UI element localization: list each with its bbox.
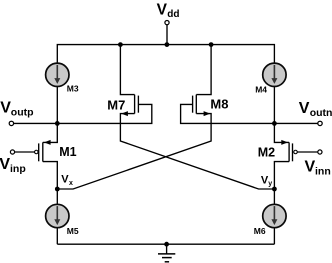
svg-text:M1: M1 <box>59 145 76 159</box>
svg-text:M4: M4 <box>255 84 267 94</box>
svg-text:x: x <box>69 180 73 187</box>
svg-text:M2: M2 <box>258 146 275 160</box>
svg-text:V: V <box>0 156 10 173</box>
svg-text:dd: dd <box>167 9 179 20</box>
svg-text:M5: M5 <box>67 226 79 236</box>
svg-text:V: V <box>0 99 11 116</box>
svg-text:M7: M7 <box>107 97 125 112</box>
svg-text:outn: outn <box>310 107 332 119</box>
svg-text:V: V <box>299 100 310 117</box>
svg-text:y: y <box>268 181 272 188</box>
svg-text:V: V <box>61 173 69 185</box>
svg-text:M6: M6 <box>254 226 266 236</box>
svg-text:outp: outp <box>11 107 34 119</box>
svg-text:inn: inn <box>315 165 331 177</box>
svg-text:V: V <box>305 159 316 176</box>
svg-text:M8: M8 <box>210 97 228 112</box>
svg-text:V: V <box>157 2 168 19</box>
svg-text:M3: M3 <box>67 83 79 93</box>
svg-text:inp: inp <box>10 163 26 175</box>
